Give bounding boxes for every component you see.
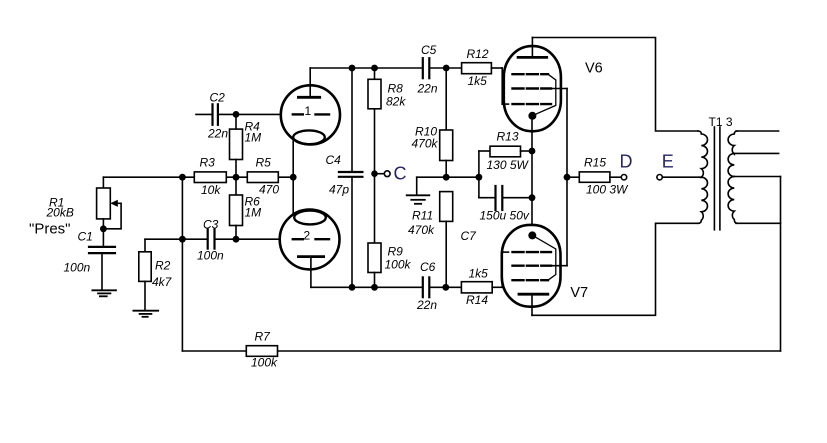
wire R4 to node (235, 160, 237, 196)
svg-text:C1: C1 (78, 230, 93, 244)
node R3 left junction (179, 174, 186, 181)
node R10/R11 junction (443, 174, 450, 181)
right feedback rail (780, 177, 782, 352)
node V7 grid junction (442, 284, 449, 291)
pentode V7 grid g1 (502, 251, 551, 253)
svg-text:22n: 22n (417, 82, 438, 96)
label V6 (585, 61, 603, 77)
wire R2 top to C3 (145, 239, 208, 252)
label T1 3 (709, 115, 733, 129)
svg-text:1k5: 1k5 (469, 267, 489, 281)
transformer core (714, 127, 720, 230)
screen bus wire (566, 89, 568, 266)
node C7 right (529, 194, 536, 201)
node cathode junction (290, 174, 297, 181)
resistor R12 (462, 47, 492, 88)
pentode V6 grid g1 (502, 103, 551, 105)
node C3/R6/grid junction (233, 236, 240, 243)
wire cathode bus tube1-tube2 (292, 138, 294, 214)
svg-text:1k5: 1k5 (468, 74, 488, 88)
svg-text:100k: 100k (385, 258, 412, 272)
svg-text:150u 50v: 150u 50v (480, 209, 530, 223)
svg-text:470: 470 (259, 183, 279, 197)
secondary tap 2 (734, 176, 780, 178)
node R13 right (529, 148, 536, 155)
pentode V7 cathode dot (528, 231, 536, 239)
top plate wire (310, 67, 422, 69)
triode V2 plate (298, 257, 323, 288)
node R8 top (371, 65, 378, 72)
wire C2 to tube 1 grid (218, 113, 284, 115)
wire junction to ground stub (417, 177, 479, 195)
triode V1 cathode (293, 130, 325, 144)
svg-text:100n: 100n (197, 249, 224, 263)
node R3/R4/R5/R6 (233, 174, 240, 181)
wire R8 to R9 (374, 109, 376, 243)
bottom plate wire (311, 286, 423, 288)
svg-text:R9: R9 (388, 245, 404, 259)
capacitor C7 (461, 186, 533, 243)
pentode V7 grid g3 (513, 236, 556, 280)
svg-text:R3: R3 (200, 156, 216, 170)
triode V2 grid (293, 229, 329, 243)
resistor R13 (479, 130, 532, 173)
ground middle (407, 195, 430, 204)
svg-text:C: C (394, 164, 407, 184)
wire R14 to V7 grid (492, 252, 502, 287)
svg-text:100k: 100k (251, 356, 278, 370)
capacitor C5 (417, 43, 438, 96)
node C3 left junction (179, 236, 186, 243)
svg-text:R8: R8 (388, 82, 404, 96)
svg-text:130 5W: 130 5W (487, 158, 530, 172)
secondary wire bottom (736, 222, 781, 224)
node C tap (371, 164, 406, 184)
resistor R3 (194, 156, 226, 198)
triode V1 grid (293, 104, 329, 118)
node C2/R4/grid junction (233, 111, 240, 118)
svg-text:47p: 47p (329, 183, 349, 197)
node C4 top (349, 65, 356, 72)
resistor R14 (461, 267, 492, 308)
svg-text:R11: R11 (412, 209, 433, 223)
resistor R9 (368, 243, 412, 287)
secondary wire top (736, 130, 779, 132)
wire C5 to R12 (429, 67, 461, 69)
node R13 left (476, 151, 483, 198)
wire left input rail to R3 (103, 176, 194, 178)
transformer T1 primary (698, 131, 708, 223)
resistor R8 (368, 68, 406, 109)
capacitor C2 (207, 91, 228, 141)
wire input to C2 (196, 113, 212, 115)
svg-text:D: D (620, 152, 633, 172)
node R15 left (564, 174, 571, 181)
wire C3 to tube 2 grid (215, 238, 285, 240)
svg-text:2: 2 (304, 229, 311, 243)
node R9 bottom (371, 284, 378, 291)
triode V2 envelope (280, 210, 340, 270)
svg-text:C6: C6 (420, 260, 436, 274)
svg-text:R15: R15 (584, 156, 606, 170)
svg-text:470k: 470k (408, 223, 435, 237)
resistor R2 (139, 252, 173, 310)
svg-text:C4: C4 (326, 153, 342, 167)
node C4 bottom (349, 284, 356, 291)
svg-text:82k: 82k (386, 95, 406, 109)
wire R3 to R5 (226, 176, 247, 178)
svg-text:22n: 22n (416, 298, 437, 312)
svg-text:22n: 22n (207, 127, 228, 141)
svg-text:R12: R12 (467, 47, 489, 61)
pentode V6 plate (518, 38, 547, 58)
triode V1 plate (298, 68, 319, 97)
svg-text:C3: C3 (203, 218, 219, 232)
resistor R4 (230, 114, 262, 159)
resistor R11 (408, 192, 453, 288)
V7 plate to transformer wire (532, 223, 698, 315)
svg-text:R14: R14 (466, 293, 488, 307)
resistor R7 (246, 330, 278, 370)
svg-text:4k7: 4k7 (152, 275, 173, 289)
resistor R10 (412, 68, 453, 177)
svg-text:R5: R5 (256, 156, 272, 170)
capacitor C1 (64, 230, 116, 291)
capacitor C4 (326, 68, 363, 287)
svg-text:1: 1 (305, 104, 312, 118)
capacitor C3 (197, 218, 224, 263)
svg-text:R13: R13 (497, 130, 519, 144)
resistor R6 (230, 195, 262, 240)
pentode V6 envelope (504, 46, 561, 131)
svg-text:V6: V6 (585, 61, 603, 77)
svg-text:"Pres": "Pres" (29, 221, 71, 238)
pentode V6 grid g2 (513, 87, 568, 89)
svg-text:100 3W: 100 3W (586, 183, 629, 197)
svg-text:100n: 100n (64, 261, 91, 275)
terminal E (657, 152, 701, 180)
svg-text:470k: 470k (412, 137, 439, 151)
svg-text:C5: C5 (421, 43, 437, 57)
pentode V7 grid g2 (513, 265, 568, 267)
label V7 (570, 285, 588, 301)
svg-text:1M: 1M (245, 206, 262, 220)
potentiometer R1 (29, 177, 121, 246)
svg-text:E: E (662, 152, 674, 172)
svg-text:10k: 10k (201, 183, 221, 197)
triode V2 cathode (294, 211, 326, 225)
wire R5 to cathode line (278, 176, 293, 178)
pentode V7 plate (519, 294, 548, 315)
bottom rail wire (182, 350, 780, 352)
pentode V7 envelope (502, 225, 561, 307)
pentode V6 grid g3 (513, 74, 556, 115)
svg-text:R7: R7 (255, 330, 272, 344)
ground below C1 (92, 290, 116, 296)
svg-text:C7: C7 (461, 229, 478, 243)
cathode bus V6-V7 (531, 116, 533, 236)
svg-text:R2: R2 (155, 259, 171, 273)
terminal D (620, 152, 633, 180)
capacitor C6 (416, 260, 437, 312)
pentode V6 cathode dot (528, 112, 536, 120)
node V6 grid junction (443, 65, 450, 72)
resistor R15 (567, 156, 629, 197)
svg-text:C2: C2 (210, 91, 226, 105)
vertical feedback rail (181, 177, 183, 351)
svg-text:V7: V7 (570, 285, 588, 301)
wire C6 to R14 (429, 286, 461, 288)
resistor R5 (247, 156, 279, 197)
wire R12 to V6 grid (491, 68, 502, 104)
secondary tap 1 (734, 152, 778, 154)
svg-text:20kB: 20kB (46, 206, 74, 220)
V6 plate to transformer wire (532, 38, 698, 132)
ground below R2 (133, 311, 158, 317)
transformer secondary (728, 131, 737, 223)
triode V1 envelope (281, 85, 340, 144)
svg-text:T1 3: T1 3 (709, 115, 733, 129)
svg-text:1M: 1M (245, 131, 262, 145)
